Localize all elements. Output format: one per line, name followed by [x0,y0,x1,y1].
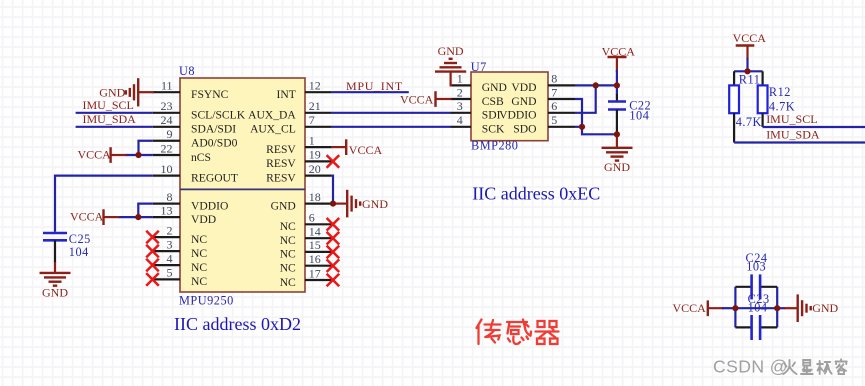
designator U7 [471,60,487,74]
U8 pin 5 NC [146,266,207,289]
wire U7 pin 5 [575,126,582,128]
svg-text:18: 18 [309,190,321,204]
svg-text:NC: NC [191,247,207,260]
U8 pin 7 AUX_CL [250,113,332,136]
U8 pin 14 NC [280,225,340,248]
U7 pin 4 SCK [451,113,505,136]
junction dot (616.9,134.3) [614,131,620,137]
ground symbol above U7 pin 1 [435,44,466,71]
svg-text:INT: INT [276,88,295,101]
svg-text:8: 8 [551,72,557,86]
svg-text:NC: NC [280,234,296,247]
svg-text:VCCA: VCCA [78,148,112,162]
wire U8 pin 7 to U7 pin 4 [332,126,451,128]
U8 pin 6 NC [280,211,340,234]
U8 pin 2 NC [146,223,207,246]
net label IMU_SDA (left) [83,112,137,126]
capacitor C23 [735,292,777,340]
svg-text:NC: NC [191,261,207,274]
U8 pin 9 AD0/SD0 [153,127,238,150]
svg-text:7: 7 [309,113,315,127]
svg-text:SCK: SCK [482,123,505,136]
wire U7 pin 6 up to VDD node [575,85,596,112]
U7 pin 8 VDD [511,72,575,95]
wire U8 pin 20 to pin 18 [332,176,333,204]
svg-text:GND: GND [812,301,838,315]
U8 pin 24 SDA/SDI [153,113,237,136]
junction dot (138.3,217.1) [135,214,141,220]
junction dot (333,203.6) [330,201,336,207]
svg-text:RESV: RESV [266,143,296,156]
svg-text:FSYNC: FSYNC [191,88,229,101]
power VCCA above C22 [602,44,636,72]
svg-text:11: 11 [161,79,173,93]
svg-text:VCCA: VCCA [733,31,767,45]
svg-text:9: 9 [167,127,173,141]
svg-text:RESV: RESV [266,157,296,170]
svg-text:GND: GND [482,81,507,94]
svg-text:14: 14 [309,225,321,239]
svg-text:23: 23 [161,99,173,113]
svg-text:1: 1 [309,133,315,147]
ground symbol below C22 [602,134,633,174]
text sensor (chuan gan qi, red) [477,320,559,345]
wire VCCA to C22 node [616,70,618,85]
svg-text:104: 104 [629,109,649,123]
U8 pin 23 SCL/SCLK [153,99,246,122]
svg-text:GND: GND [99,85,125,99]
power VCCA above R11 R12 [733,31,767,60]
U8 pin 16 NC [280,252,340,275]
wire IMU_SCL to U8 pin 23 [76,112,153,114]
capacitor C22 [608,85,651,134]
svg-text:MPU9250: MPU9250 [179,293,234,307]
text IIC address 0xD2 [174,314,301,334]
svg-text:CSB: CSB [482,95,504,108]
wire IMU_SDA (right) [734,141,865,143]
U8 pin 22 nCS [153,141,211,164]
wire resistor top branch [734,70,763,72]
svg-text:SCL/SCLK: SCL/SCLK [191,109,246,122]
svg-text:CSDN @: CSDN @ [713,357,788,377]
svg-text:GND: GND [604,160,630,174]
U7 pin 3 SDI [451,99,501,122]
U7 pin 5 SDO [513,113,575,136]
wire MPU_INT from U8 pin 12 [332,91,409,93]
svg-text:U7: U7 [471,60,487,74]
svg-text:VCCA: VCCA [70,210,104,224]
wire VCCA to resistor node [746,58,748,71]
U8 pin 3 NC [146,237,207,260]
svg-text:15: 15 [309,238,321,252]
U8 pin 20 RESV [266,162,331,185]
svg-text:AUX_CL: AUX_CL [250,123,296,136]
svg-text:4: 4 [457,113,463,127]
U8 pin 19 RESV [266,148,339,171]
svg-text:16: 16 [309,252,321,266]
svg-text:6: 6 [551,99,557,113]
svg-text:IMU_SCL: IMU_SCL [766,112,817,126]
net label IMU_SCL (left) [83,98,134,112]
wire right vertical of cap loop [776,287,778,328]
svg-text:3: 3 [457,99,463,113]
wire U8 pin 10 REGOUT to C25 [55,176,153,232]
svg-text:GND: GND [362,197,388,211]
svg-text:24: 24 [161,113,173,127]
U8 pin 13 VDD [153,203,216,226]
U8 pin 1 RESV [266,133,331,156]
svg-text:13: 13 [161,203,173,217]
svg-text:GND: GND [511,95,536,108]
svg-text:C25: C25 [69,232,91,246]
svg-text:VCCA: VCCA [400,92,434,106]
svg-text:NC: NC [280,276,296,289]
svg-text:VDD: VDD [191,213,216,226]
U8 pin 18 GND [271,190,332,213]
svg-text:104: 104 [69,245,89,259]
capacitor C25 [43,232,91,263]
U8 pin 8 VDDIO [153,190,229,213]
U7 pin 1 GND [451,72,507,95]
U8 pin 4 NC [146,251,207,274]
svg-text:RESV: RESV [266,171,296,184]
wire VCCA to left node [722,307,735,309]
svg-text:IMU_SDA: IMU_SDA [83,112,137,126]
svg-text:nCS: nCS [191,151,211,164]
net label MPU_INT [346,79,403,93]
wire GND to U7 pin 1 [451,72,452,86]
junction dot (777.2,308.2) [774,305,780,311]
svg-text:GND: GND [438,44,464,58]
U8 pin 21 AUX_DA [248,99,331,122]
svg-text:5: 5 [551,113,557,127]
wire middle C23/C24 [735,307,777,309]
capacitor C24 [735,251,777,300]
op-amp U7 body (BMP280 IC) [471,72,548,141]
svg-text:2: 2 [457,85,463,99]
svg-text:NC: NC [280,248,296,261]
svg-text:4.7K: 4.7K [736,115,762,129]
net label IMU_SCL (right) [766,112,817,126]
svg-text:104: 104 [748,301,768,315]
svg-text:AD0/SD0: AD0/SD0 [191,137,238,150]
wire U8 pin 9 to pin 22 junction [126,141,153,155]
svg-text:U8: U8 [179,64,195,78]
wire right node to GND [777,307,785,309]
svg-text:SDA/SDI: SDA/SDI [191,123,236,136]
power VCCA at C23/C24 block [673,300,724,316]
junction dot (616.9,85.4) [614,82,620,88]
svg-text:R12: R12 [769,85,791,99]
svg-text:8: 8 [167,190,173,204]
wire IMU_SDA to U8 pin 24 [76,126,153,128]
svg-text:AUX_DA: AUX_DA [248,109,296,122]
svg-text:SDI: SDI [482,109,501,122]
watermark CSDN @huoxingjike [713,357,847,377]
svg-text:6: 6 [309,211,315,225]
svg-text:REGOUT: REGOUT [191,171,238,184]
svg-text:MPU_INT: MPU_INT [346,79,403,93]
U8 pin 17 NC [280,266,340,289]
ground symbol right of C23 block [784,294,839,322]
svg-text:VCCA: VCCA [673,301,707,315]
svg-text:17: 17 [309,266,321,280]
ground symbol below C25 [40,262,71,300]
wire U7 pin 8 to VCCA node [575,84,617,86]
svg-text:103: 103 [746,260,766,274]
U7 pin 6 VDDIO [499,99,575,122]
junction dot (138.5,155) [135,152,141,158]
junction dot (595.7,85.4) [593,82,599,88]
svg-text:7: 7 [551,85,557,99]
svg-text:IIC address 0xEC: IIC address 0xEC [472,183,600,203]
power VCCA at U7 pin 2 [400,91,452,107]
svg-text:NC: NC [191,233,207,246]
svg-text:VDDIO: VDDIO [191,199,228,212]
svg-text:21: 21 [309,99,321,113]
U8 pin 15 NC [280,238,340,261]
wire left vertical of cap loop [734,287,736,328]
junction dot (735.4,308.2) [732,305,738,311]
wire U7 pin 7 down to pin 5 [575,99,582,127]
svg-text:22: 22 [161,141,173,155]
svg-text:VCCA: VCCA [349,143,383,157]
wire SDO node to GND node [582,127,617,135]
junction dot (582,126.8) [579,124,585,130]
svg-text:BMP280: BMP280 [471,139,518,153]
svg-text:VDD: VDD [511,81,536,94]
svg-text:20: 20 [309,162,321,176]
svg-text:IIC address 0xD2: IIC address 0xD2 [174,314,301,334]
svg-text:NC: NC [280,262,296,275]
svg-text:12: 12 [309,79,321,93]
junction dot (747.5,71.3) [744,68,750,74]
svg-text:NC: NC [280,220,296,233]
text IIC address 0xEC [472,183,600,203]
wire IMU_SCL (right) [763,126,865,128]
svg-text:VCCA: VCCA [602,44,636,58]
op-amp U8 body (MPU9250 IC) [180,78,305,292]
power VCCA at U8 pin 13 [70,209,119,225]
net label IMU_SDA (right) [766,128,820,142]
svg-text:1: 1 [457,72,463,86]
U7 pin 2 CSB [451,85,504,108]
ground symbol at U8 pin 18 [333,190,388,218]
svg-text:IMU_SCL: IMU_SCL [83,98,134,112]
svg-text:10: 10 [161,162,173,176]
designator BMP280 [471,139,518,153]
U7 pin 7 GND [511,85,575,108]
svg-text:IMU_SDA: IMU_SDA [766,128,820,142]
svg-text:2: 2 [167,223,173,237]
ground symbol at U8 pin 11 [99,78,154,106]
wire U8 pin 21 to U7 pin 3 [332,112,451,114]
svg-text:NC: NC [191,275,207,288]
resistor R11 [729,71,762,142]
designator U8 [179,64,195,78]
svg-text:GND: GND [271,199,296,212]
wire U8 pin 8 to pin 13 junction [118,204,152,218]
svg-text:3: 3 [167,237,173,251]
power VCCA at U8 pin 22 [78,147,127,163]
svg-text:SDO: SDO [513,123,536,136]
svg-text:VDDIO: VDDIO [499,109,536,122]
svg-text:19: 19 [309,148,321,162]
U8 pin 11 FSYNC [153,79,229,102]
svg-text:GND: GND [42,286,68,300]
U8 pin 10 REGOUT [153,162,238,185]
svg-text:5: 5 [167,266,173,280]
resistor R12 [758,71,795,127]
power VCCA at U8 pin 1 [332,139,383,157]
svg-text:4: 4 [167,251,173,265]
designator MPU9250 [179,293,234,307]
U8 pin 12 INT [276,79,331,102]
